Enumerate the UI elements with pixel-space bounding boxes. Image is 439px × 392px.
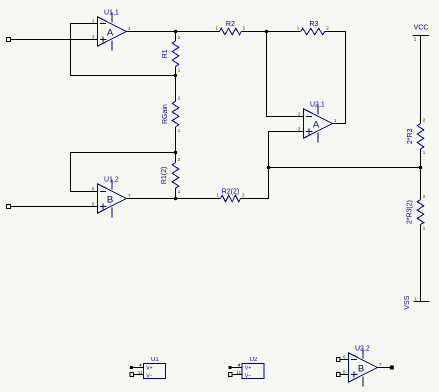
svg-text:2: 2 [243, 25, 246, 30]
svg-text:1: 1 [415, 297, 418, 302]
op-amp U2,2 [343, 345, 382, 386]
svg-text:1: 1 [178, 128, 181, 133]
resistor R2 [215, 21, 245, 35]
wire U1,1 -in feedback to node X [71, 24, 176, 76]
svg-text:U2,1: U2,1 [310, 101, 325, 108]
svg-text:R1: R1 [162, 49, 169, 58]
junction node X [174, 74, 177, 77]
svg-text:1: 1 [178, 68, 181, 73]
svg-text:4: 4 [139, 363, 142, 368]
svg-text:2: 2 [178, 157, 181, 162]
op-amp U1,2 [92, 176, 131, 217]
wire node X to RGain [175, 76, 177, 102]
svg-text:B: B [358, 363, 364, 374]
resistor 2*R3 [407, 118, 426, 155]
wire R1 to node X [175, 67, 177, 76]
power symbol VCC [413, 25, 430, 42]
svg-text:R2: R2 [226, 21, 235, 28]
svg-text:2: 2 [92, 18, 95, 23]
junction divider mid [419, 166, 422, 169]
svg-text:7: 7 [379, 362, 382, 367]
wire node Y feedback to U1,2 -in [71, 153, 176, 192]
svg-text:1: 1 [178, 189, 181, 194]
svg-text:5: 5 [343, 369, 346, 374]
junction U1,2 out / R1(2) [174, 197, 177, 200]
wire U1,2 output rail [127, 198, 221, 200]
svg-text:2: 2 [423, 118, 426, 123]
power box U2 [229, 357, 265, 379]
svg-text:VCC: VCC [414, 25, 429, 32]
op-amp U2,2 pins [336, 358, 393, 377]
resistor R2(2) [217, 188, 245, 201]
wire 2*R3 to 2*R3(2) [420, 149, 422, 200]
svg-text:A: A [313, 119, 320, 130]
svg-text:U2: U2 [250, 357, 258, 363]
svg-text:2*R3(2): 2*R3(2) [407, 200, 414, 224]
power symbol VSS [404, 295, 430, 309]
junction R2/R3 node [265, 30, 268, 33]
wire R2(2) to U2,1 +in [241, 132, 304, 199]
port IN1 [6, 38, 10, 42]
resistor 2*R3(2) [407, 194, 426, 231]
wire reference branch [269, 167, 421, 169]
svg-text:VSS: VSS [404, 295, 411, 309]
svg-text:1: 1 [414, 36, 417, 41]
svg-text:2: 2 [298, 111, 301, 116]
wire IN1 to U1,1 +in [10, 39, 97, 41]
svg-text:1: 1 [423, 150, 426, 155]
svg-text:11: 11 [237, 370, 242, 375]
svg-text:1: 1 [423, 226, 426, 231]
svg-text:3: 3 [92, 34, 95, 39]
svg-text:R2(2): R2(2) [222, 188, 240, 195]
wire node Y to R1(2) [175, 153, 177, 163]
svg-text:2: 2 [326, 25, 329, 30]
svg-text:RGain: RGain [162, 104, 169, 124]
svg-text:3: 3 [298, 126, 301, 131]
svg-text:6: 6 [92, 186, 95, 191]
op-amp U2,1 [298, 101, 337, 142]
svg-text:5: 5 [92, 201, 95, 206]
svg-text:7: 7 [128, 193, 131, 198]
svg-text:1: 1 [217, 192, 220, 197]
resistor R1 [162, 35, 181, 72]
wire R3 to U2,1 output (feedback) [325, 32, 346, 124]
wire R1(2) to bottom rail [175, 188, 177, 198]
wire R2/R3 node to U2,1 -in [267, 32, 304, 117]
svg-text:U2,2: U2,2 [355, 345, 370, 352]
svg-text:U1: U1 [151, 357, 159, 363]
power box U1 [130, 357, 166, 379]
wire VCC to 2*R3 [420, 36, 422, 124]
svg-text:V+: V+ [245, 365, 251, 371]
svg-text:1: 1 [334, 118, 337, 123]
junction U1,1 out / R1 [174, 30, 177, 33]
svg-text:2: 2 [423, 194, 426, 199]
svg-text:6: 6 [343, 354, 346, 359]
svg-text:V+: V+ [146, 365, 152, 371]
wire 2*R3(2) to VSS [420, 225, 422, 302]
svg-text:2*R3: 2*R3 [407, 128, 414, 144]
resistor R1(2) [161, 157, 181, 194]
svg-text:11: 11 [138, 370, 143, 375]
svg-text:4: 4 [238, 363, 241, 368]
svg-text:V−: V− [146, 373, 152, 379]
svg-text:R3: R3 [309, 21, 318, 28]
svg-text:A: A [107, 27, 114, 38]
svg-text:2: 2 [178, 35, 181, 40]
resistor RGain [162, 96, 181, 133]
svg-text:2: 2 [242, 192, 245, 197]
resistor R3 [297, 21, 329, 35]
wire R2 to R3 [241, 31, 300, 33]
wire IN2 to U1,2 +in [11, 206, 98, 208]
wire U1,1 output rail [127, 31, 220, 33]
svg-text:1: 1 [128, 26, 131, 31]
svg-text:V−: V− [245, 373, 251, 379]
wire chain R1 top [175, 32, 177, 42]
svg-text:1: 1 [297, 25, 300, 30]
svg-text:2: 2 [178, 96, 181, 101]
svg-text:U1,1: U1,1 [104, 9, 119, 16]
port IN2 [7, 205, 11, 209]
wire RGain to node Y [175, 127, 177, 153]
svg-text:1: 1 [215, 25, 218, 30]
op-amp U1,1 [92, 9, 131, 50]
svg-text:R1(2): R1(2) [161, 167, 168, 185]
svg-text:B: B [107, 194, 113, 205]
junction ref branch left [267, 166, 270, 169]
svg-text:U1,2: U1,2 [104, 176, 119, 183]
junction node Y [174, 151, 177, 154]
